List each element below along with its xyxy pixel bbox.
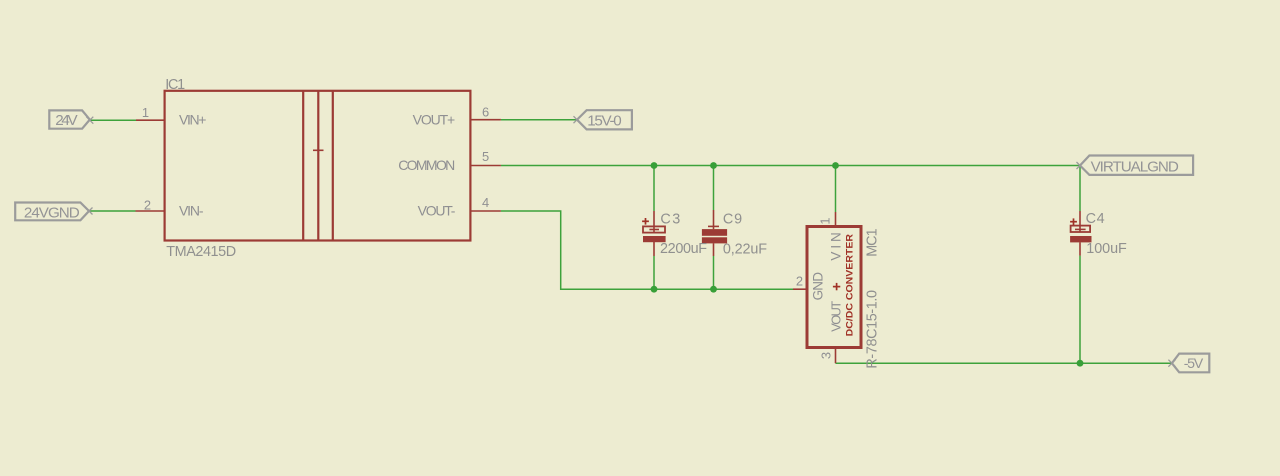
svg-text:24V: 24V — [55, 112, 78, 129]
svg-text:24VGND: 24VGND — [24, 205, 80, 222]
svg-text:1: 1 — [142, 105, 149, 120]
svg-text:5: 5 — [482, 149, 489, 164]
svg-text:VOUT-: VOUT- — [418, 203, 456, 219]
svg-text:GND: GND — [810, 272, 825, 301]
svg-text:1: 1 — [818, 217, 833, 224]
svg-text:VIN-: VIN- — [179, 203, 204, 219]
svg-text:DC/DC CONVERTER: DC/DC CONVERTER — [845, 234, 856, 337]
svg-text:TMA2415D: TMA2415D — [166, 244, 236, 260]
svg-text:COMMON: COMMON — [398, 157, 455, 173]
svg-text:2: 2 — [144, 198, 151, 213]
svg-text:C4: C4 — [1086, 211, 1105, 227]
svg-text:100uF: 100uF — [1086, 241, 1127, 257]
svg-text:15V-0: 15V-0 — [587, 113, 621, 130]
svg-text:2: 2 — [796, 273, 803, 288]
svg-text:MC1: MC1 — [864, 228, 880, 256]
svg-text:VOUT: VOUT — [829, 301, 844, 332]
svg-text:R-78C15-1.0: R-78C15-1.0 — [864, 290, 880, 369]
svg-text:VIN+: VIN+ — [179, 112, 206, 128]
svg-text:VOUT+: VOUT+ — [413, 112, 456, 128]
svg-text:6: 6 — [482, 104, 489, 119]
svg-text:2200uF: 2200uF — [660, 241, 707, 257]
svg-text:C3: C3 — [660, 212, 680, 228]
svg-text:3: 3 — [819, 352, 834, 359]
svg-text:VIN: VIN — [829, 232, 844, 260]
svg-text:IC1: IC1 — [165, 77, 185, 93]
svg-text:-5V: -5V — [1184, 356, 1204, 372]
svg-text:0,22uF: 0,22uF — [723, 242, 767, 258]
svg-text:4: 4 — [482, 195, 489, 210]
svg-text:C9: C9 — [723, 212, 742, 228]
svg-text:VIRTUALGND: VIRTUALGND — [1091, 159, 1179, 176]
